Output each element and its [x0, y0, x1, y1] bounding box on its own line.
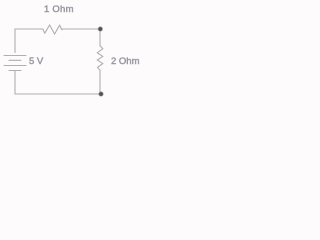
- node junction dot bottom-right: [99, 92, 103, 96]
- wire top-right horizontal segment: [61, 28, 100, 30]
- battery V1 plate short bottom: [9, 70, 21, 72]
- svg-text:2 Ohm: 2 Ohm: [111, 56, 140, 67]
- wire right vertical upper segment: [99, 29, 101, 46]
- resistor R2 zigzag (2 Ohm, vertical): [97, 46, 103, 71]
- battery V1 plate short upper: [9, 59, 21, 61]
- svg-text:1 Ohm: 1 Ohm: [44, 4, 74, 15]
- resistor R1 zigzag (1 Ohm, horizontal): [43, 25, 62, 34]
- battery V1 plate long lower: [4, 65, 26, 67]
- wire left vertical upper segment: [14, 29, 16, 53]
- wire bottom horizontal segment: [15, 93, 101, 95]
- node junction dot top-right: [98, 27, 102, 31]
- wire right vertical lower segment: [99, 70, 101, 94]
- wire left vertical lower segment: [14, 71, 16, 94]
- battery V1 plate long top: [4, 55, 26, 57]
- svg-text:5 V: 5 V: [29, 56, 44, 67]
- wire top-left horizontal segment: [15, 28, 43, 30]
